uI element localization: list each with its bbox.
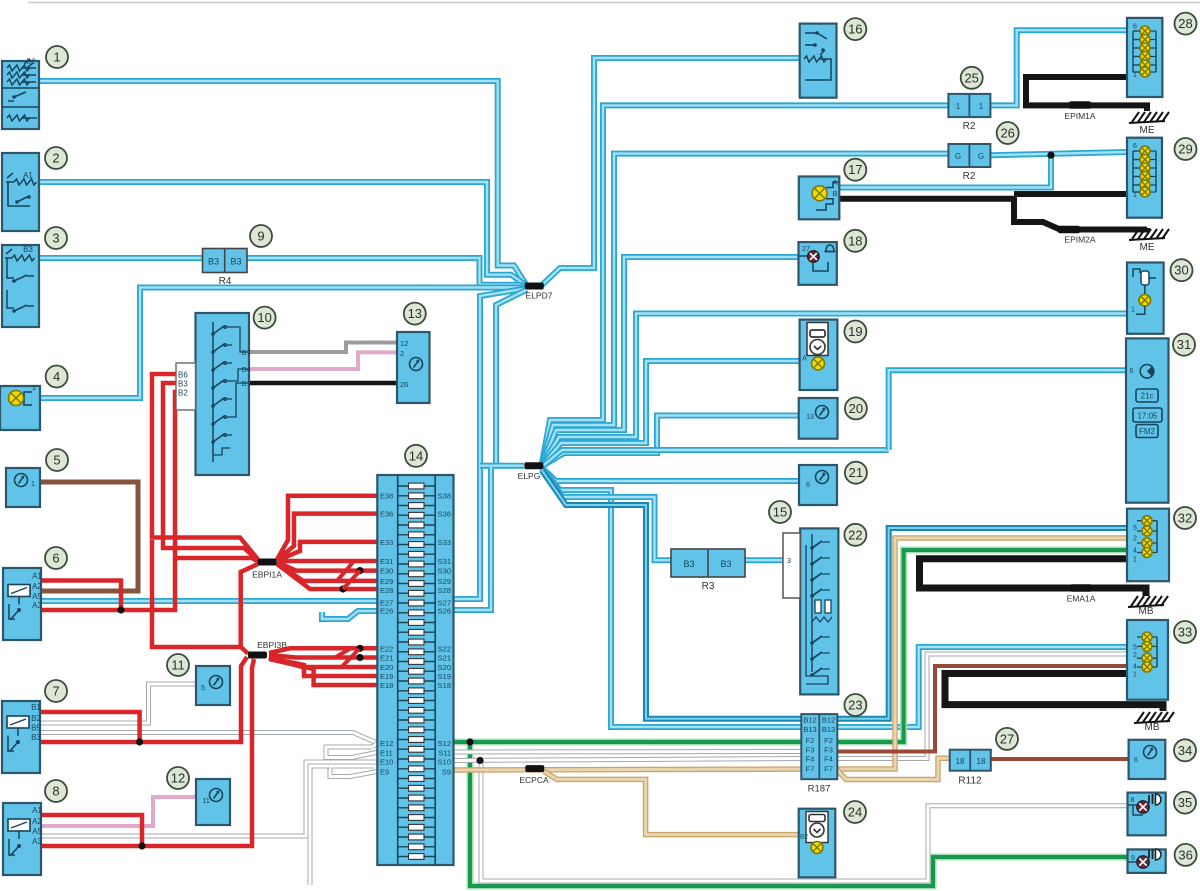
svg-text:B3: B3: [178, 380, 188, 389]
svg-text:1: 1: [1133, 72, 1137, 79]
svg-text:S21: S21: [438, 654, 451, 663]
component 29 lamp cluster: [1127, 138, 1162, 218]
svg-text:5: 5: [53, 453, 60, 468]
splice EBPI3B: [248, 652, 267, 659]
svg-text:B6: B6: [178, 371, 188, 380]
svg-text:A2: A2: [32, 582, 42, 591]
svg-text:17: 17: [848, 162, 862, 177]
label circle 27: [996, 728, 1018, 750]
svg-text:E21: E21: [380, 654, 393, 663]
svg-text:A3: A3: [32, 601, 42, 610]
svg-text:14: 14: [409, 448, 423, 463]
wire black component17 pinB to EPIM2A: [839, 199, 1147, 230]
svg-text:1: 1: [32, 383, 36, 392]
svg-text:B2: B2: [31, 714, 41, 723]
wire red EBPI1A to E29: [277, 563, 377, 581]
svg-text:S31: S31: [438, 557, 451, 566]
splice ELPD7: [525, 283, 544, 290]
svg-text:A1: A1: [32, 572, 42, 581]
wire cyan component4 to ELPD7: [40, 288, 526, 399]
node junction E28: [339, 585, 346, 592]
wire red twist E21-E22b: [335, 649, 350, 658]
svg-text:S9: S9: [442, 768, 451, 777]
wire cyan ELPG to component19: [542, 361, 800, 466]
wire tan S9 to ECPCA to component32 pin2: [453, 769, 837, 770]
label circle 31: [1173, 334, 1195, 356]
label circle 8: [45, 780, 67, 802]
svg-text:5: 5: [201, 683, 205, 692]
node junction S10 white: [476, 757, 483, 764]
wire pink component8 A2 to component12: [41, 797, 197, 826]
wire cyan ELPD7 to ELPG trunk: [496, 290, 527, 466]
component 17 lamp: [799, 177, 840, 220]
svg-text:E29: E29: [380, 577, 393, 586]
svg-text:12: 12: [171, 771, 185, 786]
wire white fold E9: [330, 766, 377, 777]
svg-text:MB: MB: [1145, 722, 1160, 733]
svg-text:A: A: [802, 356, 807, 363]
wire grey component10 B7 to component13 pin12: [249, 343, 397, 353]
wire green S12 to R187 F2: [453, 739, 802, 746]
svg-text:6: 6: [52, 551, 59, 566]
svg-text:B3: B3: [23, 245, 33, 254]
node junction E21: [356, 654, 363, 661]
svg-text:E22: E22: [380, 644, 393, 653]
wire cyan relay R2-25 to component28: [990, 30, 1127, 105]
label circle 32: [1174, 507, 1196, 529]
svg-text:26: 26: [400, 380, 408, 389]
wire cyan ELPG to component30: [542, 314, 1127, 466]
svg-text:E26: E26: [380, 607, 393, 616]
component 3 switch unit: [2, 245, 39, 327]
svg-text:S19: S19: [438, 672, 451, 681]
label circle 12: [167, 767, 189, 789]
component 6 relay: [3, 568, 41, 640]
wire red component6 branch to EBPI3B: [152, 540, 248, 654]
svg-text:S30: S30: [438, 567, 451, 576]
wire red EBPI3B to E20: [269, 657, 377, 667]
node junction E22: [356, 645, 363, 652]
label circle 13: [404, 303, 426, 325]
wire red EBPI3B to E19: [269, 658, 377, 676]
svg-text:B3: B3: [208, 257, 219, 267]
component 22 lock unit: [800, 528, 838, 694]
svg-text:G: G: [978, 152, 984, 161]
svg-text:S36: S36: [438, 510, 451, 519]
svg-text:A3: A3: [32, 837, 42, 846]
svg-text:18: 18: [848, 233, 862, 248]
label circle 4: [46, 366, 68, 388]
svg-text:1: 1: [1133, 672, 1137, 679]
svg-text:36: 36: [1178, 847, 1192, 862]
svg-text:6: 6: [1130, 368, 1134, 375]
svg-text:10: 10: [257, 310, 271, 325]
wire red EBPI3B to E21: [269, 655, 377, 658]
svg-text:3: 3: [52, 231, 59, 246]
label circle 2: [45, 147, 67, 169]
wire white fold E11: [326, 747, 377, 758]
label circle 17: [844, 159, 866, 181]
wire red EBPI1A to E36: [277, 514, 377, 560]
label circle 24: [844, 801, 866, 823]
wire white component8 A5 to E10: [41, 762, 377, 836]
svg-text:B2: B2: [800, 834, 808, 841]
wire cyan ELPG to component21: [542, 468, 799, 481]
svg-text:17:05: 17:05: [1137, 412, 1158, 421]
svg-text:B2: B2: [26, 57, 35, 66]
svg-text:8: 8: [52, 784, 59, 799]
svg-text:A: A: [832, 178, 837, 187]
node junction R2-26 cyan: [1047, 152, 1054, 159]
wire red component6 A3 link: [41, 559, 175, 610]
wire maroon relay R112 to component34: [991, 757, 1129, 761]
svg-text:33: 33: [1178, 625, 1192, 640]
wire black component33 to ground MB: [945, 674, 1163, 712]
svg-text:E30: E30: [380, 567, 393, 576]
svg-text:9: 9: [1131, 855, 1135, 862]
svg-text:4: 4: [1133, 664, 1137, 671]
node junction component6 A3: [117, 606, 124, 613]
svg-text:S18: S18: [438, 681, 451, 690]
svg-text:B1: B1: [31, 703, 41, 712]
svg-text:ME: ME: [1140, 125, 1155, 136]
svg-text:E19: E19: [380, 672, 393, 681]
svg-text:12: 12: [400, 339, 408, 348]
component 10 column switch: [196, 313, 250, 475]
wire white S10 to R187 F4: [453, 759, 802, 761]
label circle 9: [250, 225, 272, 247]
ground MB component32: [1128, 605, 1164, 607]
wire white component7 B2 to component11: [41, 684, 197, 723]
label circle 30: [1171, 259, 1193, 281]
svg-text:S12: S12: [438, 739, 451, 748]
svg-text:B2: B2: [178, 389, 188, 398]
wire red EBPI1A to E33: [277, 542, 377, 561]
wire cyan ELPG to relay R2-25: [542, 105, 949, 463]
svg-text:4: 4: [1133, 548, 1137, 555]
node junction E30: [356, 567, 363, 574]
svg-text:B3: B3: [230, 257, 241, 267]
component 4 lamp: [0, 386, 40, 430]
wire white R187 F4 to component33 pin2: [837, 654, 1127, 759]
svg-text:34: 34: [1178, 743, 1192, 758]
svg-text:1: 1: [1133, 557, 1137, 564]
wire red EBPI3B to E22: [269, 648, 377, 653]
svg-text:A5: A5: [32, 827, 42, 836]
wire red component6 A1 link: [41, 581, 121, 611]
wire red twist E28-E30: [343, 571, 360, 589]
wire black component29 to ground ME: [1014, 191, 1127, 197]
label circle 5: [46, 449, 68, 471]
svg-text:24: 24: [848, 805, 862, 820]
wire red B6 to EBPI1A: [152, 374, 258, 560]
svg-text:8: 8: [1131, 797, 1135, 804]
svg-text:F4: F4: [806, 755, 815, 764]
wire tan R187 F7 to component32 pin2: [837, 538, 1127, 769]
label circle 11: [167, 654, 189, 676]
svg-text:B3: B3: [720, 559, 731, 569]
svg-text:30: 30: [1174, 263, 1188, 278]
wire white E9 drop: [310, 766, 330, 885]
wire white S10 branch to component35: [481, 761, 1128, 882]
label circle 33: [1174, 621, 1196, 643]
svg-text:B12: B12: [803, 716, 816, 725]
label circle 21: [845, 462, 867, 484]
svg-text:B: B: [832, 189, 837, 198]
wire green S12 branch to component36: [470, 742, 1128, 886]
svg-text:MB: MB: [1139, 606, 1154, 617]
wire cyan ELPG to fuse R3: [542, 470, 671, 561]
wire cyan E26 stub fold: [322, 611, 377, 619]
wire cyan ELPG to component18: [542, 257, 799, 465]
svg-text:S10: S10: [438, 758, 451, 767]
component 11 sensor: [196, 666, 230, 705]
svg-text:B3: B3: [31, 733, 41, 742]
svg-text:11: 11: [202, 796, 210, 805]
svg-text:27: 27: [1000, 731, 1014, 746]
label circle 7: [45, 680, 67, 702]
wire cyan R187 B13 to component33 pin5: [837, 647, 1127, 727]
component 30 lamp unit: [1127, 263, 1164, 334]
wire red EBPI3B to E18: [269, 659, 377, 685]
component 12 sensor: [196, 779, 230, 825]
wire red EBPI1A to E28: [277, 564, 377, 589]
wire black component10 B1 to component13 pin26: [249, 381, 397, 386]
component 36 headlamp: [1128, 849, 1166, 873]
svg-text:E20: E20: [380, 663, 393, 672]
svg-text:F3: F3: [806, 746, 815, 755]
label circle 19: [844, 321, 866, 343]
svg-text:2: 2: [1133, 536, 1137, 543]
component 21 sensor: [799, 465, 837, 505]
label circle 22: [844, 524, 866, 546]
label circle 26: [997, 122, 1019, 144]
svg-text:S20: S20: [438, 663, 451, 672]
label circle 25: [961, 67, 983, 89]
svg-text:ELPD7: ELPD7: [526, 291, 553, 301]
label circle 3: [45, 227, 67, 249]
wire red EBPI1A to E31: [277, 559, 377, 564]
wire red EBPI3B to component7: [41, 657, 247, 742]
svg-text:E10: E10: [380, 758, 393, 767]
wire red EBPI1A to E38: [277, 496, 377, 560]
svg-text:6: 6: [1134, 757, 1138, 764]
label circle 14: [405, 445, 427, 467]
wire red trunk EBPI1A to EBPI3B: [241, 564, 258, 647]
wire red twist E29-E31: [337, 561, 354, 581]
svg-text:E11: E11: [380, 748, 393, 757]
svg-text:26: 26: [1000, 126, 1014, 141]
splice EPIM1A: [1069, 101, 1091, 109]
svg-text:6: 6: [1133, 143, 1137, 150]
wire brown component5 to component6 A2: [40, 482, 138, 591]
wire cyan ELPD7 to component16: [542, 58, 800, 285]
svg-text:ME: ME: [1140, 242, 1155, 253]
label circle 10: [254, 307, 276, 329]
svg-text:B3: B3: [683, 559, 694, 569]
wire tan R187 F7 to relay R112: [837, 758, 950, 779]
wire white component7 B5 to E12: [41, 733, 377, 744]
wire pink component10 B4 to component13 pin2: [249, 352, 397, 369]
label circle 29: [1175, 138, 1197, 160]
splice EMA1A: [1070, 584, 1092, 592]
component 34 sensor: [1129, 740, 1166, 779]
wire cyan junction to component17 pinA: [839, 155, 1051, 187]
svg-text:35: 35: [1178, 795, 1192, 810]
node junction S12 green: [466, 738, 473, 745]
wire cyan fuse R4 to ELPD7: [247, 258, 526, 286]
svg-text:R2: R2: [963, 171, 976, 182]
svg-text:1: 1: [53, 50, 60, 65]
svg-text:B12: B12: [822, 716, 835, 725]
svg-text:13: 13: [806, 414, 814, 421]
svg-text:F2: F2: [824, 736, 833, 745]
svg-text:21c: 21c: [1141, 392, 1154, 401]
svg-text:16: 16: [848, 22, 862, 37]
label circle 6: [45, 547, 67, 569]
svg-text:ELPG: ELPG: [518, 471, 541, 481]
relay R2 25: [948, 94, 990, 117]
svg-text:22: 22: [848, 527, 862, 542]
svg-text:1: 1: [1133, 192, 1137, 199]
svg-text:F2: F2: [806, 736, 815, 745]
relay R112: [950, 750, 991, 771]
svg-text:27: 27: [802, 244, 810, 253]
label circle 20: [845, 397, 867, 419]
wire cyan ELPG to R187 B13: [542, 469, 802, 728]
label circle 34: [1174, 739, 1196, 761]
svg-text:S26: S26: [438, 607, 451, 616]
node junction component8 A3: [138, 842, 145, 849]
wire teal ELPG to R187 B12: [542, 471, 802, 719]
svg-text:S11: S11: [438, 748, 451, 757]
wire red component7 B1 link: [41, 712, 140, 742]
svg-text:G: G: [955, 152, 961, 161]
component 33 tail lamp: [1127, 620, 1168, 700]
wire cyan vertical to component31: [889, 370, 1126, 450]
splice ELPG: [524, 462, 543, 469]
wire maroon R187 F3 to component33 pin4: [837, 666, 1127, 752]
svg-text:A2: A2: [32, 817, 42, 826]
svg-text:B13: B13: [803, 725, 816, 734]
wire black component32 to ground MB via EMA1A: [920, 559, 1147, 596]
svg-text:1: 1: [1131, 307, 1135, 314]
wire tan ECPCA branch to component24: [544, 772, 799, 835]
wire cyan fuse R3 to component22: [745, 557, 784, 563]
svg-text:EBPI1A: EBPI1A: [252, 570, 282, 580]
svg-text:20: 20: [849, 401, 863, 416]
node junction component7 B3: [136, 738, 143, 745]
svg-text:6: 6: [1133, 24, 1137, 31]
label circle 18: [844, 230, 866, 252]
fuse R3: [671, 549, 745, 577]
svg-text:B13: B13: [822, 725, 835, 734]
component 28 lamp cluster: [1127, 18, 1162, 97]
wire cyan S27 to ELPD7: [453, 289, 526, 600]
svg-text:5: 5: [1133, 525, 1137, 532]
splice EBPI1A: [258, 559, 277, 566]
svg-text:E18: E18: [380, 681, 393, 690]
svg-text:EPIM2A: EPIM2A: [1064, 235, 1096, 245]
svg-text:21: 21: [849, 465, 863, 480]
wire cyan ELPG to component20: [542, 416, 799, 467]
label circle 23: [844, 694, 866, 716]
component 8 relay: [3, 803, 41, 875]
component 1 switch unit: [2, 61, 39, 129]
label circle 1: [46, 46, 68, 68]
svg-text:32: 32: [1178, 511, 1192, 526]
svg-text:11: 11: [171, 658, 185, 673]
svg-text:A1: A1: [32, 806, 42, 815]
component 24 indicator: [799, 809, 836, 878]
svg-text:2: 2: [400, 349, 404, 358]
svg-text:E36: E36: [380, 510, 393, 519]
svg-text:E9: E9: [380, 768, 389, 777]
svg-text:F3: F3: [824, 746, 833, 755]
svg-text:7: 7: [52, 684, 59, 699]
wire red component8 A1 link: [41, 815, 142, 846]
component 31 clock radio: [1126, 338, 1169, 502]
connector R187: [801, 714, 837, 779]
svg-text:2: 2: [1133, 652, 1137, 659]
wire white fold E11 tail: [372, 744, 377, 748]
svg-text:FM2: FM2: [1139, 427, 1156, 436]
wire green R187 F2 to component32 pin4: [837, 550, 1127, 742]
svg-text:F7: F7: [806, 765, 815, 774]
svg-text:R3: R3: [702, 581, 715, 592]
label circle 35: [1174, 792, 1196, 814]
svg-text:R2: R2: [963, 121, 976, 132]
component 16 switch: [800, 24, 837, 98]
svg-text:1: 1: [31, 479, 35, 488]
wire white S11 to R187 F3: [453, 749, 802, 755]
component 5 sensor: [6, 468, 40, 507]
wire cyan S26 to ELPG: [453, 467, 491, 610]
svg-text:F4: F4: [824, 755, 833, 764]
svg-text:13: 13: [408, 306, 422, 321]
relay R2 26: [948, 144, 990, 167]
svg-text:F7: F7: [824, 765, 833, 774]
label circle 36: [1175, 844, 1197, 866]
svg-text:6: 6: [806, 482, 810, 489]
component 14 ECU connector: [377, 475, 453, 865]
component 20 sensor: [799, 398, 838, 439]
wire cyan component2 to ELPD7: [39, 182, 526, 285]
svg-text:R4: R4: [219, 276, 232, 287]
svg-text:S38: S38: [438, 492, 451, 501]
wire cyan component1 to ELPD7: [39, 81, 526, 285]
wire red B3 to EBPI1A: [163, 383, 258, 561]
component 13 clock: [397, 332, 430, 403]
label circle 28: [1175, 13, 1197, 35]
svg-text:E33: E33: [380, 538, 393, 547]
label circle 15: [769, 501, 791, 523]
svg-text:15: 15: [773, 505, 787, 520]
wire cyan A5 to E27: [41, 598, 377, 604]
svg-text:5: 5: [1133, 645, 1137, 652]
svg-text:E38: E38: [380, 492, 393, 501]
component 2 switch unit: [2, 153, 39, 231]
svg-text:25: 25: [964, 70, 978, 85]
svg-text:1: 1: [956, 102, 961, 111]
wire cyan ELPG to component31 pin6: [542, 450, 889, 467]
wire cyan ELPG to relay R2-26: [542, 154, 949, 464]
wire red EBPI3B to component8: [41, 659, 254, 846]
svg-text:28: 28: [1178, 16, 1192, 31]
svg-text:3: 3: [787, 556, 791, 565]
splice EPIM2A: [1058, 226, 1080, 234]
ground MB component33: [1134, 721, 1170, 723]
